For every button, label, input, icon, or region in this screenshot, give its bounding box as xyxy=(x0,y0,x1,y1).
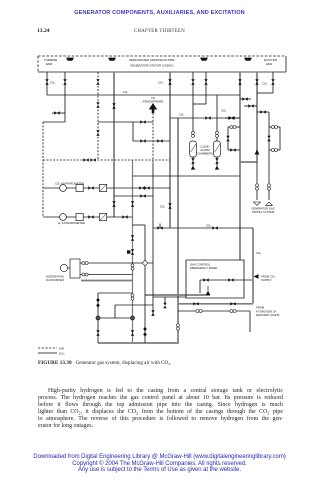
branch y122 xyxy=(98,121,153,123)
drop x206 xyxy=(205,72,207,104)
vent column x153 xyxy=(152,163,154,316)
valve y228 xyxy=(212,226,217,229)
drop x193 xyxy=(192,72,194,132)
stub y113 xyxy=(52,112,65,114)
svg-text:H₂ KATHAROMETER: H₂ KATHAROMETER xyxy=(58,221,85,225)
valve stub y113 xyxy=(54,111,59,114)
sample line x145 xyxy=(144,225,146,343)
svg-text:END: END xyxy=(266,62,273,66)
diamonds x145 xyxy=(143,327,147,332)
valve x165 xyxy=(163,303,166,308)
folio number xyxy=(37,28,50,34)
panel vent arrow xyxy=(206,291,211,295)
stub y112 xyxy=(257,111,269,113)
bypass left bottom valve xyxy=(230,148,235,151)
joint circle x132 xyxy=(131,316,135,320)
svg-text:CO₂: CO₂ xyxy=(50,80,55,84)
svg-text:AIR: AIR xyxy=(59,347,65,351)
generator stator casing (dashed box) xyxy=(38,56,286,72)
link y305 xyxy=(115,304,153,306)
hydrogen line y311 xyxy=(178,310,250,312)
footer notice xyxy=(0,454,319,474)
valve x114 y204 xyxy=(112,201,115,206)
pipe y304 xyxy=(178,303,253,305)
bypass right x280 xyxy=(279,127,281,150)
svg-text:CO₂: CO₂ xyxy=(160,204,165,208)
valve x98 y105 xyxy=(96,102,99,107)
valve stub y106 xyxy=(248,104,253,107)
svg-text:CO₂: CO₂ xyxy=(123,90,128,94)
co2 supply arrow xyxy=(254,274,259,278)
pipe riser x178 xyxy=(177,118,179,343)
drop x65 xyxy=(64,72,66,122)
link y225 xyxy=(133,224,146,226)
svg-text:ATMOSPHERE: ATMOSPHERE xyxy=(143,100,164,104)
valve drop x47 xyxy=(45,79,48,84)
bypass left top valve xyxy=(230,126,236,129)
svg-text:FLOW METER: FLOW METER xyxy=(46,278,64,282)
stub y106 xyxy=(244,105,257,107)
body paragraph xyxy=(38,388,283,431)
valve stub y99 xyxy=(242,97,247,100)
drop x47 xyxy=(46,72,48,95)
valve x98 y133 xyxy=(96,130,99,135)
pipe riser x132 xyxy=(132,160,134,343)
link y318 xyxy=(98,317,133,319)
bypass right top xyxy=(269,126,280,128)
valve y188 b xyxy=(139,186,144,189)
valve stem xyxy=(159,224,161,229)
valve drop x206 xyxy=(204,79,207,84)
thick CO2 pipes (gray) xyxy=(81,72,257,343)
svg-text:PERFORATED ADMISSION PIPE: PERFORATED ADMISSION PIPE xyxy=(129,58,174,62)
link y122 left xyxy=(43,121,65,123)
svg-text:EMERGENCY PANEL: EMERGENCY PANEL xyxy=(190,266,218,270)
flow arrow up x257 xyxy=(255,150,260,155)
branch x133 xyxy=(132,122,134,141)
svg-text:INTEGRATING: INTEGRATING xyxy=(46,274,64,278)
header y176 xyxy=(133,175,241,177)
bypass right bottom xyxy=(269,149,280,151)
valve x114 y106 xyxy=(112,103,115,108)
stub y99 xyxy=(240,98,251,100)
pipe riser x170 xyxy=(169,72,171,228)
svg-text:GENERATOR GAS: GENERATOR GAS xyxy=(251,206,274,210)
running head xyxy=(0,10,319,16)
regulator left xyxy=(226,136,229,141)
admission port 2 xyxy=(108,58,116,61)
drying valve left xyxy=(256,184,259,190)
valve stub y112 xyxy=(260,110,265,113)
chamber drop x217 xyxy=(216,95,218,141)
valve x132 y252 xyxy=(131,249,134,254)
bypass left x228 xyxy=(227,127,229,150)
valve x153 y313 xyxy=(151,310,154,315)
hydrogen drop x250 xyxy=(249,311,251,332)
valve y188 a xyxy=(88,186,93,189)
drain circles x178 xyxy=(177,324,180,330)
pipe riser x240 xyxy=(239,72,241,260)
admission port 4 xyxy=(244,58,252,61)
svg-text:END: END xyxy=(46,62,53,66)
pipe return y278 xyxy=(81,280,133,282)
valve x170 y206 xyxy=(168,203,171,208)
vent line x153 xyxy=(152,113,154,164)
to atmosphere vent xyxy=(149,103,157,113)
air (dashed) pipes xyxy=(43,72,170,217)
stub y118 left xyxy=(225,117,240,119)
branch y141 xyxy=(133,140,170,142)
liquid alarm chamber right xyxy=(214,141,221,157)
katharometer line y196 xyxy=(114,195,153,197)
valve y141 a xyxy=(140,139,145,142)
valve air y160 xyxy=(83,158,88,161)
co2 supply line y280 xyxy=(200,279,252,281)
admission port 1 xyxy=(66,58,74,61)
valve x132 y204 xyxy=(131,201,134,206)
bottle line x98 xyxy=(97,293,99,343)
bottle diamonds x98 xyxy=(96,298,100,303)
liquid alarm chamber left xyxy=(190,141,197,157)
valve y217 b xyxy=(122,215,127,218)
valve drop x170 xyxy=(168,79,171,84)
header y95 xyxy=(47,94,240,96)
solenoid box xyxy=(127,250,130,253)
integrating flow meter xyxy=(60,264,67,271)
svg-text:LIQUID: LIQUID xyxy=(201,145,210,149)
katharometer line y188 xyxy=(43,187,170,189)
valve y118 b xyxy=(228,116,233,119)
valve stub y118 xyxy=(229,116,234,119)
valve y188 c xyxy=(144,186,149,189)
drying chevron up xyxy=(266,202,273,205)
header y228 xyxy=(153,227,253,229)
flow meter line y272 xyxy=(80,274,133,276)
link 257-273 xyxy=(257,92,273,94)
flow meter valve a xyxy=(82,262,88,265)
valve drop x257 xyxy=(255,79,258,84)
valve drop x193 xyxy=(191,79,194,84)
svg-text:DRYING SYSTEM: DRYING SYSTEM xyxy=(252,210,275,214)
valve drop x98 xyxy=(96,79,99,84)
valve y118 a xyxy=(205,116,210,119)
svg-text:CHAMBERS: CHAMBERS xyxy=(197,152,212,156)
link y293 xyxy=(98,292,133,294)
katharometer line y217 xyxy=(43,216,133,218)
valve x132 y267 xyxy=(131,264,134,270)
drying valve right xyxy=(268,184,271,190)
drop x273 xyxy=(272,72,274,93)
chamber feed y118 xyxy=(170,117,240,119)
svg-text:ALARM: ALARM xyxy=(200,148,210,152)
valve drop x65 xyxy=(63,79,66,84)
bypass left bottom xyxy=(228,149,240,151)
svg-text:DELIVERY MAINS: DELIVERY MAINS xyxy=(256,313,280,317)
drying chevron down xyxy=(254,202,261,205)
bypass left top xyxy=(228,126,240,128)
air drop x98 xyxy=(97,72,99,160)
valve y196 xyxy=(140,194,145,197)
drying line x257 xyxy=(256,162,258,200)
svg-text:CO₂: CO₂ xyxy=(179,112,184,116)
flow meter line y264 xyxy=(80,262,153,264)
admission port 3 xyxy=(200,58,208,61)
valve x132 y238 xyxy=(131,235,134,240)
air riser x43 xyxy=(42,122,44,217)
valve x132 y333 xyxy=(131,330,134,335)
flow meter valve b xyxy=(82,273,88,276)
legend air xyxy=(38,347,57,349)
svg-text:CO₂: CO₂ xyxy=(59,352,66,356)
valve drop x240 xyxy=(238,79,241,84)
co2 supply valve b xyxy=(228,278,233,281)
chapter title xyxy=(0,29,319,34)
svg-text:CO₂: CO₂ xyxy=(221,108,226,112)
thin pipes xyxy=(43,72,280,343)
panel box xyxy=(186,260,244,298)
figure caption xyxy=(38,360,298,366)
legend co2 xyxy=(38,352,57,354)
joint circle x98 xyxy=(96,316,100,320)
hydrogen valves y304 xyxy=(193,302,198,305)
svg-text:CO₂: CO₂ xyxy=(158,80,163,84)
bypass right bottom valve xyxy=(271,149,277,152)
co2 supply valve a xyxy=(203,278,208,281)
svg-text:CO₂: CO₂ xyxy=(256,251,261,255)
valve drop x273 xyxy=(271,79,274,84)
chamber stub x217 xyxy=(216,157,218,166)
air header y160 xyxy=(43,159,170,161)
drying line x269 xyxy=(268,112,270,200)
stub x165 xyxy=(164,297,166,303)
svg-text:CO₂: CO₂ xyxy=(206,223,211,227)
pipe riser x253 xyxy=(252,228,254,303)
tee circle x145 xyxy=(143,261,147,265)
pipe riser x257 xyxy=(256,72,258,162)
pipe bottom y343 xyxy=(98,342,179,344)
bypass right top valve xyxy=(271,126,277,129)
regulator right xyxy=(267,136,270,141)
panel drop x200 xyxy=(199,280,201,293)
panel bottom overlap xyxy=(153,296,186,298)
chamber stub x193 xyxy=(192,157,194,166)
hydrogen valves y311 xyxy=(196,310,202,313)
svg-text:CO₂: CO₂ xyxy=(262,82,267,86)
pipe link y162 xyxy=(239,161,257,163)
drop x115b xyxy=(114,305,116,318)
pipe riser x114 xyxy=(113,72,115,217)
svg-text:GENERATOR STATOR CASING: GENERATOR STATOR CASING xyxy=(130,64,174,68)
link 193-206 xyxy=(193,103,206,105)
valve y217 a xyxy=(88,215,93,218)
valve x98 y333 xyxy=(96,330,99,335)
valve y122 xyxy=(140,120,145,123)
pipe header y295 xyxy=(145,294,210,296)
valve x132 y297 xyxy=(131,294,134,300)
svg-text:SUPPLY: SUPPLY xyxy=(261,278,272,282)
